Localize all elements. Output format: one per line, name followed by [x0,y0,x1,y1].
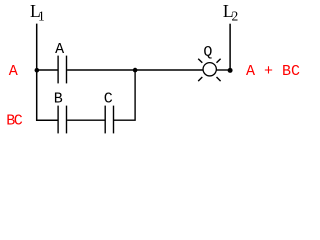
svg-text:BC: BC [6,112,23,129]
label L1 [30,1,45,24]
svg-text:A + BC: A + BC [246,63,300,80]
rail L1 (vertical, with corner to lower branch) [37,24,58,121]
label L2 [223,1,238,24]
wire: lamp Q to rail L2 [216,69,230,71]
node: junction on rail L2 [228,68,233,73]
svg-text:1: 1 [38,9,45,24]
wire: rail L1 to contact A [37,69,58,71]
rail L2 [229,24,231,71]
wire: branch vertical (junction down to lower branch) [114,70,136,120]
contact C [105,106,113,134]
svg-text:A: A [55,41,64,58]
svg-text:B: B [54,90,63,107]
node: branch junction [133,68,138,73]
contact B [58,106,66,134]
wire: contact B to contact C [67,119,105,121]
svg-text:Q: Q [203,44,212,61]
svg-text:2: 2 [232,9,239,24]
lamp Q [198,59,220,81]
svg-text:C: C [104,90,113,107]
contact A [58,56,66,84]
wire: contact A to lamp Q [67,69,203,71]
svg-text:A: A [9,63,18,80]
node: junction on rail L1 [35,68,40,73]
